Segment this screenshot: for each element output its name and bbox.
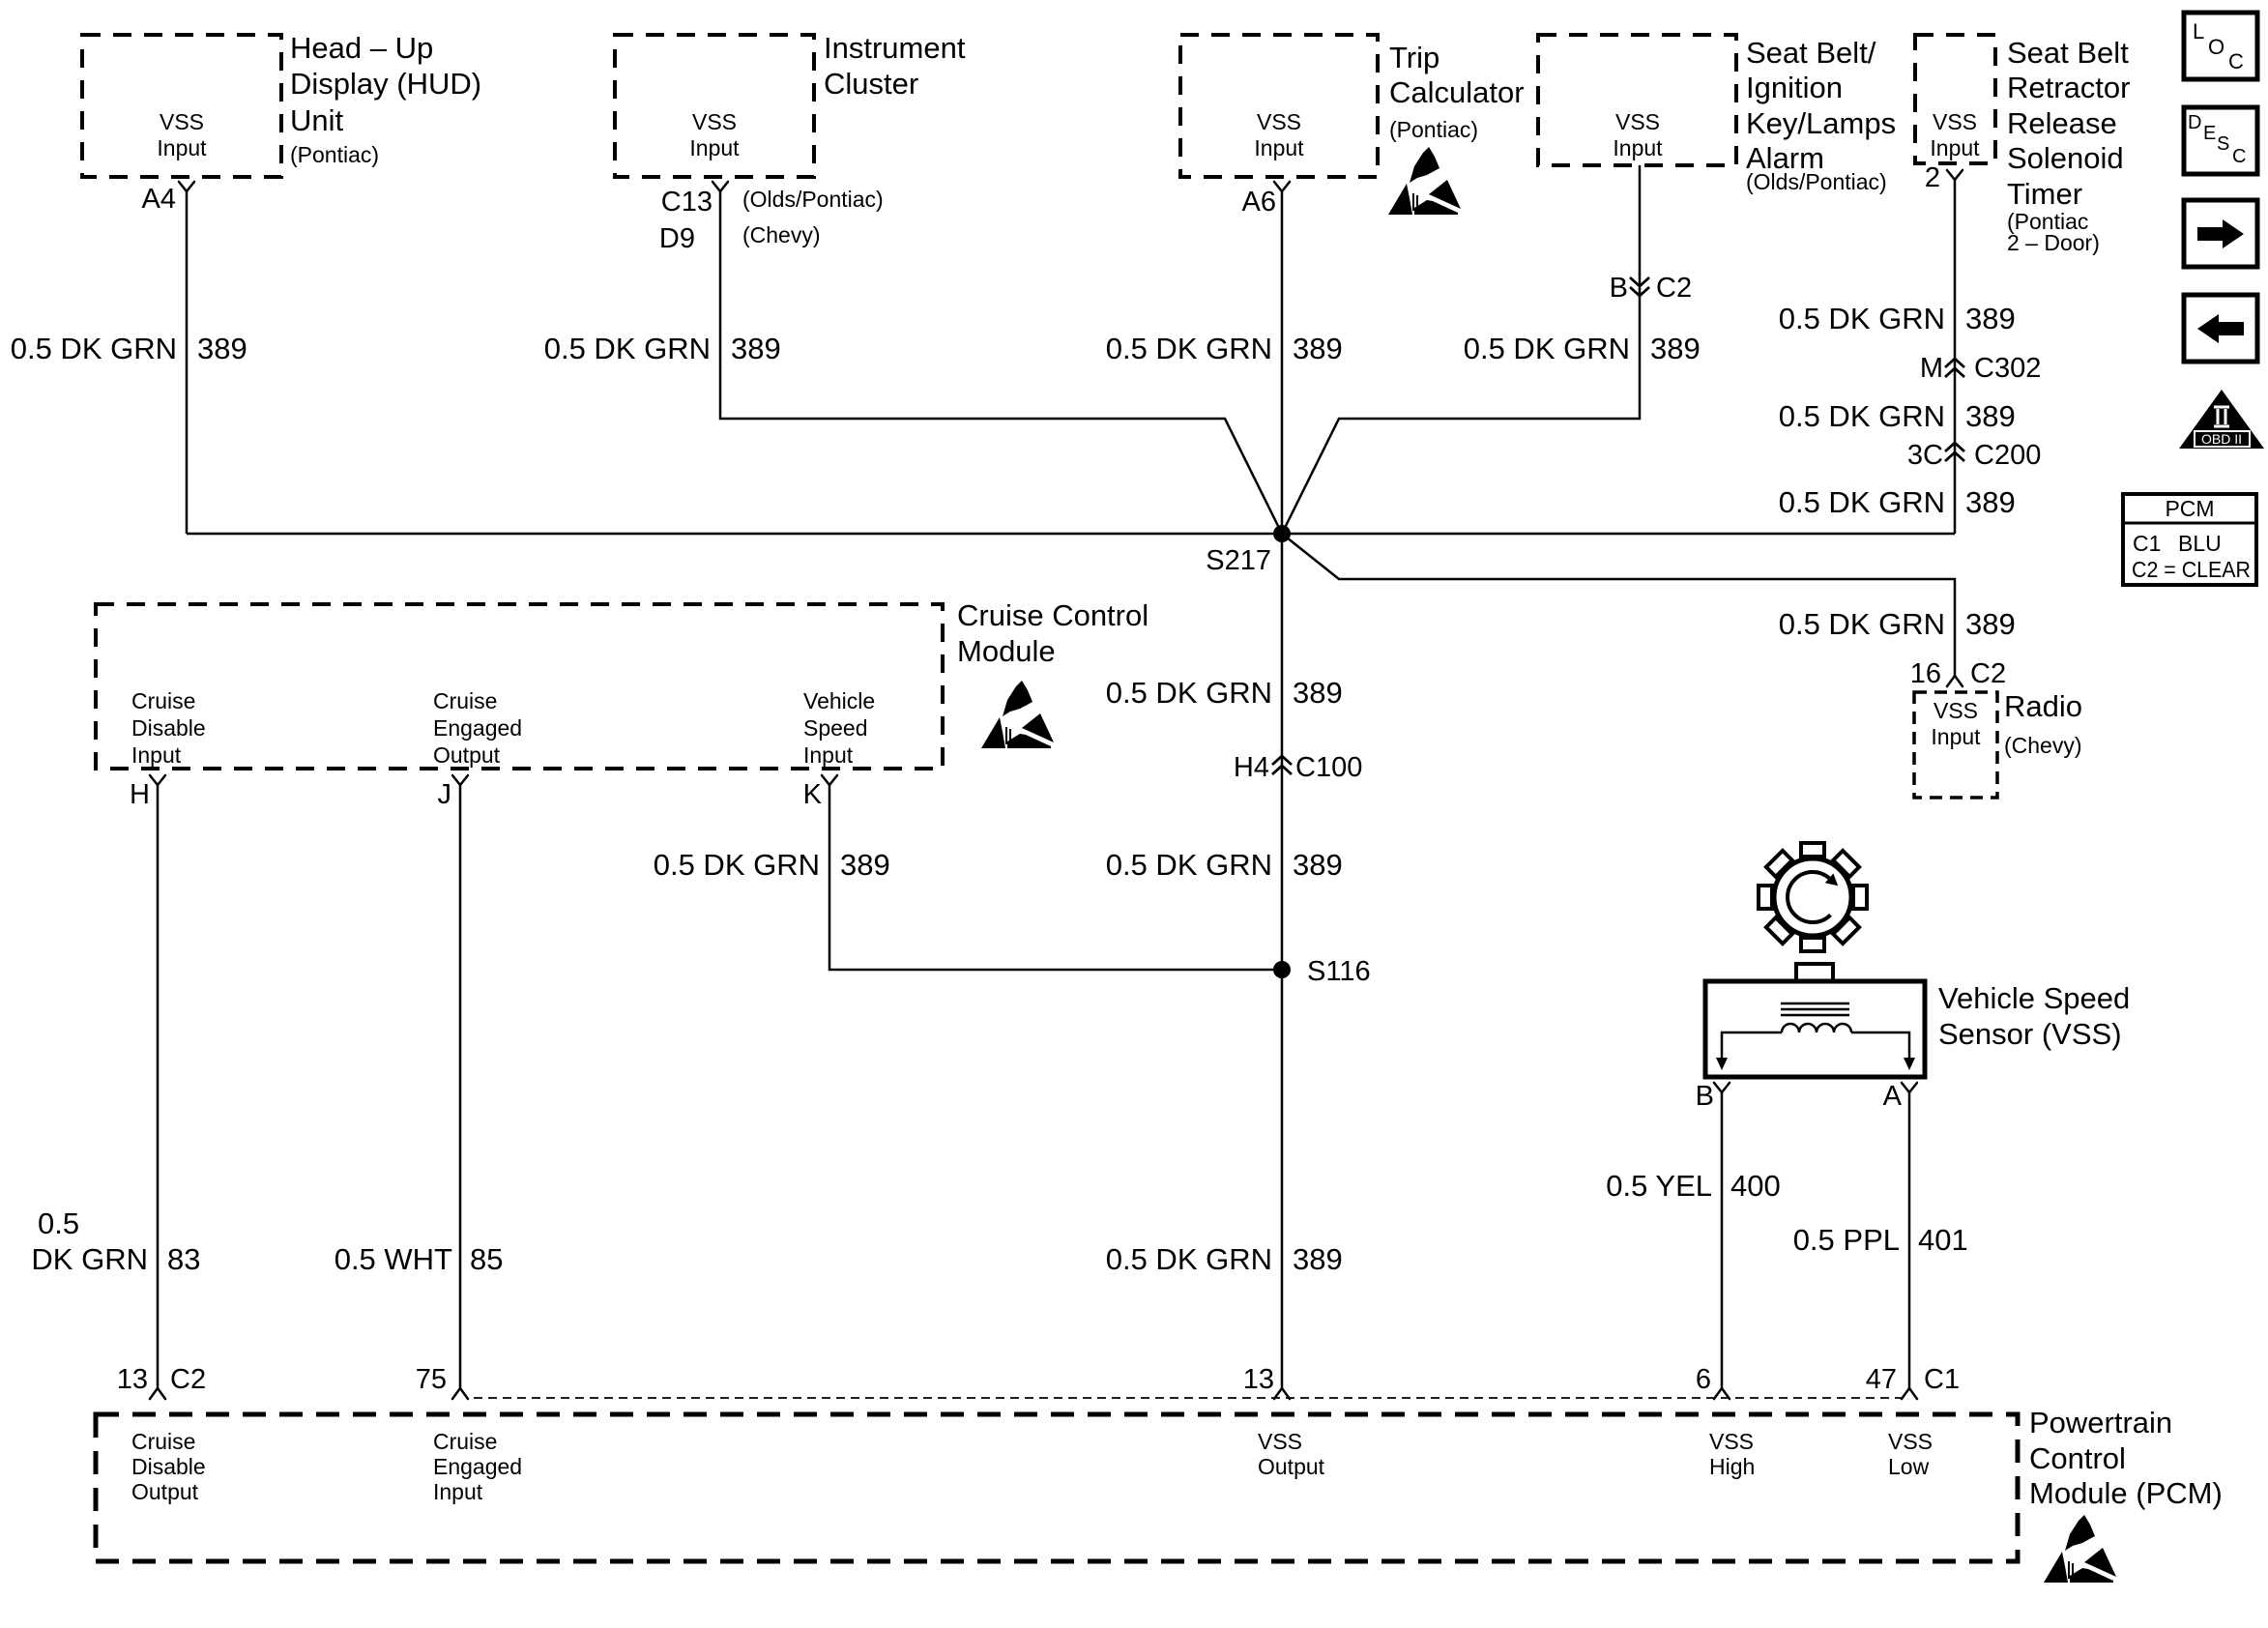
- svg-text:Vehicle Speed: Vehicle Speed: [1938, 981, 2130, 1015]
- svg-text:C2: C2: [1656, 273, 1692, 304]
- svg-text:0.5 YEL: 0.5 YEL: [1606, 1169, 1712, 1203]
- svg-text:Key/Lamps: Key/Lamps: [1746, 106, 1896, 140]
- svg-text:0.5 DK GRN: 0.5 DK GRN: [11, 332, 177, 365]
- svg-text:2: 2: [1925, 162, 1940, 193]
- svg-text:Input: Input: [1254, 135, 1304, 160]
- svg-text:389: 389: [1650, 332, 1701, 365]
- svg-text:Ignition: Ignition: [1746, 71, 1843, 104]
- svg-text:D9: D9: [659, 223, 695, 254]
- svg-text:Cruise: Cruise: [433, 688, 497, 713]
- svg-text:Retractor: Retractor: [2007, 71, 2130, 104]
- svg-text:Cruise: Cruise: [131, 688, 195, 713]
- svg-text:Module: Module: [957, 634, 1056, 668]
- svg-text:E: E: [2203, 123, 2216, 144]
- svg-text:Cruise Control: Cruise Control: [957, 598, 1149, 632]
- svg-text:Input: Input: [433, 1479, 483, 1504]
- svg-text:A4: A4: [142, 184, 176, 215]
- svg-text:0.5: 0.5: [38, 1206, 79, 1240]
- svg-text:A: A: [1883, 1081, 1903, 1112]
- svg-text:Display (HUD): Display (HUD): [290, 67, 481, 101]
- svg-text:389: 389: [1965, 485, 2016, 519]
- svg-text:C1: C1: [2133, 531, 2161, 556]
- svg-text:D: D: [2188, 112, 2201, 133]
- svg-text:C100: C100: [1295, 752, 1362, 783]
- svg-text:VSS: VSS: [1934, 698, 1978, 723]
- svg-text:Input: Input: [157, 135, 207, 160]
- svg-text:401: 401: [1918, 1223, 1968, 1257]
- svg-text:Low: Low: [1888, 1454, 1930, 1479]
- svg-text:Output: Output: [131, 1479, 199, 1504]
- svg-text:Head – Up: Head – Up: [290, 31, 433, 65]
- svg-text:VSS: VSS: [692, 109, 737, 134]
- svg-text:(Pontiac): (Pontiac): [1389, 117, 1478, 142]
- svg-text:0.5 DK GRN: 0.5 DK GRN: [1464, 332, 1630, 365]
- svg-text:C200: C200: [1974, 440, 2041, 471]
- svg-text:13: 13: [1243, 1364, 1274, 1395]
- svg-text:C1: C1: [1924, 1364, 1960, 1395]
- svg-text:Calculator: Calculator: [1389, 75, 1525, 109]
- svg-text:Output: Output: [1258, 1454, 1325, 1479]
- svg-text:389: 389: [197, 332, 247, 365]
- svg-text:0.5 DK GRN: 0.5 DK GRN: [1779, 485, 1945, 519]
- svg-text:0.5 DK GRN: 0.5 DK GRN: [654, 848, 820, 882]
- svg-text:(Olds/Pontiac): (Olds/Pontiac): [742, 187, 884, 212]
- svg-text:0.5 DK GRN: 0.5 DK GRN: [1779, 302, 1945, 335]
- svg-text:16: 16: [1910, 658, 1941, 689]
- svg-text:0.5 WHT: 0.5 WHT: [334, 1242, 452, 1276]
- svg-text:Trip: Trip: [1389, 41, 1439, 74]
- svg-text:389: 389: [1293, 676, 1343, 710]
- svg-text:Disable: Disable: [131, 1454, 206, 1479]
- svg-text:0.5 DK GRN: 0.5 DK GRN: [544, 332, 711, 365]
- svg-text:3C: 3C: [1907, 440, 1943, 471]
- svg-text:Input: Input: [689, 135, 740, 160]
- svg-text:VSS: VSS: [1615, 109, 1660, 134]
- svg-text:0.5 DK GRN: 0.5 DK GRN: [1779, 399, 1945, 433]
- svg-text:VSS: VSS: [1258, 1429, 1302, 1454]
- svg-text:C2 = CLEAR: C2 = CLEAR: [2132, 557, 2251, 582]
- svg-text:0.5 PPL: 0.5 PPL: [1793, 1223, 1900, 1257]
- svg-text:Control: Control: [2029, 1441, 2126, 1475]
- svg-text:OBD II: OBD II: [2201, 431, 2242, 447]
- svg-text:Vehicle: Vehicle: [803, 688, 875, 713]
- svg-text:S116: S116: [1307, 956, 1371, 987]
- svg-text:0.5 DK GRN: 0.5 DK GRN: [1106, 332, 1272, 365]
- svg-text:Unit: Unit: [290, 103, 344, 137]
- svg-text:0.5 DK GRN: 0.5 DK GRN: [1106, 1242, 1272, 1276]
- svg-text:0.5 DK GRN: 0.5 DK GRN: [1779, 607, 1945, 641]
- svg-text:C302: C302: [1974, 353, 2041, 384]
- svg-text:47: 47: [1866, 1364, 1897, 1395]
- svg-text:Sensor (VSS): Sensor (VSS): [1938, 1017, 2122, 1051]
- svg-text:C2: C2: [1970, 658, 2006, 689]
- svg-text:Seat Belt/: Seat Belt/: [1746, 36, 1876, 70]
- svg-text:400: 400: [1730, 1169, 1781, 1203]
- svg-text:VSS: VSS: [1709, 1429, 1754, 1454]
- svg-text:Timer: Timer: [2007, 177, 2082, 211]
- svg-text:Cruise: Cruise: [131, 1429, 195, 1454]
- svg-text:DK GRN: DK GRN: [31, 1242, 148, 1276]
- svg-text:K: K: [803, 779, 823, 810]
- svg-text:83: 83: [167, 1242, 200, 1276]
- svg-text:Module (PCM): Module (PCM): [2029, 1476, 2223, 1510]
- svg-text:PCM: PCM: [2165, 496, 2214, 521]
- svg-text:Release: Release: [2007, 106, 2117, 140]
- svg-text:Seat Belt: Seat Belt: [2007, 36, 2129, 70]
- svg-text:389: 389: [1293, 848, 1343, 882]
- svg-text:VSS: VSS: [1933, 109, 1977, 134]
- svg-text:VSS: VSS: [1888, 1429, 1933, 1454]
- svg-text:389: 389: [840, 848, 890, 882]
- svg-text:Engaged: Engaged: [433, 715, 522, 741]
- svg-text:Input: Input: [131, 742, 182, 768]
- svg-text:75: 75: [416, 1364, 447, 1395]
- svg-text:(Pontiac): (Pontiac): [290, 142, 379, 167]
- svg-text:J: J: [438, 779, 452, 810]
- svg-text:Input: Input: [803, 742, 854, 768]
- svg-text:H4: H4: [1234, 752, 1269, 783]
- svg-text:C13: C13: [661, 187, 712, 218]
- svg-text:VSS: VSS: [1257, 109, 1301, 134]
- svg-text:C: C: [2232, 146, 2246, 167]
- svg-text:C: C: [2228, 49, 2244, 73]
- svg-text:(Chevy): (Chevy): [2004, 733, 2082, 758]
- svg-text:0.5 DK GRN: 0.5 DK GRN: [1106, 848, 1272, 882]
- svg-text:389: 389: [1293, 1242, 1343, 1276]
- svg-text:Solenoid: Solenoid: [2007, 141, 2124, 175]
- svg-text:(Olds/Pontiac): (Olds/Pontiac): [1746, 169, 1887, 194]
- svg-text:S: S: [2217, 133, 2229, 155]
- svg-text:0.5 DK GRN: 0.5 DK GRN: [1106, 676, 1272, 710]
- svg-text:B: B: [1610, 273, 1628, 304]
- svg-text:VSS: VSS: [160, 109, 204, 134]
- svg-text:O: O: [2208, 35, 2224, 59]
- svg-text:M: M: [1920, 353, 1943, 384]
- svg-text:BLU: BLU: [2178, 531, 2222, 556]
- svg-text:2 – Door): 2 – Door): [2007, 230, 2100, 255]
- svg-text:389: 389: [1965, 302, 2016, 335]
- svg-text:Disable: Disable: [131, 715, 206, 741]
- svg-text:Instrument: Instrument: [824, 31, 966, 65]
- svg-text:389: 389: [731, 332, 781, 365]
- svg-text:Powertrain: Powertrain: [2029, 1406, 2172, 1439]
- svg-text:Input: Input: [1613, 135, 1663, 160]
- svg-text:Radio: Radio: [2004, 689, 2082, 723]
- svg-text:Output: Output: [433, 742, 501, 768]
- svg-text:Cruise: Cruise: [433, 1429, 497, 1454]
- svg-text:Cluster: Cluster: [824, 67, 918, 101]
- svg-text:L: L: [2193, 19, 2204, 44]
- svg-text:389: 389: [1965, 399, 2016, 433]
- svg-text:389: 389: [1965, 607, 2016, 641]
- svg-text:(Chevy): (Chevy): [742, 222, 821, 247]
- svg-text:High: High: [1709, 1454, 1755, 1479]
- svg-text:Speed: Speed: [803, 715, 868, 741]
- svg-text:6: 6: [1696, 1364, 1711, 1395]
- svg-text:Input: Input: [1931, 724, 1981, 749]
- svg-text:C2: C2: [170, 1364, 206, 1395]
- svg-text:S217: S217: [1206, 545, 1271, 576]
- svg-text:B: B: [1696, 1081, 1714, 1112]
- svg-text:A6: A6: [1242, 187, 1276, 218]
- svg-text:389: 389: [1293, 332, 1343, 365]
- svg-text:Input: Input: [1930, 135, 1980, 160]
- svg-text:Engaged: Engaged: [433, 1454, 522, 1479]
- svg-text:H: H: [130, 779, 150, 810]
- svg-text:85: 85: [470, 1242, 503, 1276]
- svg-text:13: 13: [117, 1364, 148, 1395]
